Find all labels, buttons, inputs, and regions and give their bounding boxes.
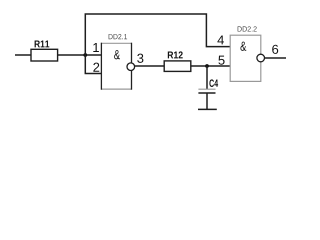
- pin 2 label: [93, 63, 99, 72]
- node B junction dot: [205, 64, 209, 68]
- wire output right: [265, 57, 286, 59]
- wire gate1 output to R12: [135, 65, 164, 67]
- pin 5 label: [218, 56, 224, 65]
- wire R11 to node A: [58, 54, 102, 56]
- pin 6 label: [272, 45, 278, 54]
- wire to pin 2: [85, 55, 101, 74]
- ampersand of DD2.1: [114, 50, 120, 59]
- output bubble of DD2.2: [257, 54, 265, 62]
- capacitor C4 bottom plate: [198, 92, 215, 94]
- ampersand of DD2.2: [240, 42, 246, 51]
- wire input left: [15, 54, 31, 56]
- capacitor C4 top lead: [206, 66, 208, 89]
- gate U1 DD2.1 body: [101, 43, 131, 90]
- wire R12 to pin 5: [191, 65, 230, 67]
- capacitor C4 bottom lead: [206, 93, 208, 109]
- node A junction dot: [83, 53, 87, 57]
- pin 4 label: [217, 35, 224, 44]
- gate U2 DD2.2 body: [230, 35, 261, 81]
- pin 3 label: [137, 54, 143, 63]
- output bubble of DD2.1: [127, 63, 135, 71]
- pin 1 label: [93, 43, 99, 52]
- resistor R11: [31, 41, 58, 61]
- capacitor C4 label: [209, 79, 218, 87]
- label DD2.2: [238, 26, 257, 31]
- resistor R12: [164, 51, 191, 71]
- wire feedback top to pin 4: [85, 14, 230, 55]
- label DD2.1: [109, 34, 128, 39]
- capacitor C4 top plate: [198, 88, 215, 90]
- ground: [198, 108, 217, 110]
